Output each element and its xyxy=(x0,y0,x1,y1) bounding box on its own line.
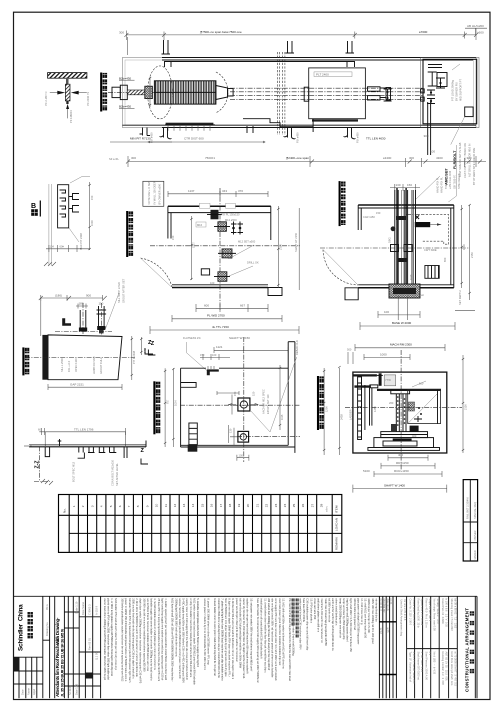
left dim vertical xyxy=(190,216,192,280)
title stacked bold with rule xyxy=(154,381,160,434)
svg-text:Appd: Appd xyxy=(32,688,36,695)
small box left xyxy=(201,269,209,275)
svg-text:134: 134 xyxy=(50,245,55,249)
right vertical line pair below landing xyxy=(428,102,431,155)
svg-text:5: 5 xyxy=(109,505,113,507)
svg-text:site mm light check 380V rail: site mm light check 380V rail hand-over … xyxy=(271,598,275,678)
svg-text:FIX a430: FIX a430 xyxy=(356,132,360,143)
svg-text:machine 5-40C earth max hand-o: machine 5-40C earth max hand-over sh xyxy=(320,598,324,643)
svg-text:Rated load kg 1000 25 b: Rated load kg 1000 25 b xyxy=(417,599,421,629)
svg-text:TTL LEN 1796: TTL LEN 1796 xyxy=(74,428,94,432)
view D title (stacked bold sim) xyxy=(340,181,346,226)
svg-text:M16 ladder IP54 wall all earth: M16 ladder IP54 wall all earth rebar 5-4… xyxy=(114,598,118,670)
drive cone xyxy=(216,86,228,100)
svg-text:SPECIAL REQ: SPECIAL REQ xyxy=(473,502,477,519)
right compartment xyxy=(408,390,441,424)
svg-text:min temp final dry bo: min temp final dry bo xyxy=(374,598,378,622)
svg-text:CONN BOLT M12x110: CONN BOLT M12x110 xyxy=(111,459,115,486)
svg-text:bb 38 a 85 62 7.2 2.62: bb 38 a 85 62 7.2 2.62 xyxy=(454,599,458,629)
svg-text:+25/-0 ALL DIM: +25/-0 ALL DIM xyxy=(448,171,452,189)
svg-text:3. humid lockable access in sh: 3. humid lockable access in shaft plates… xyxy=(153,598,157,670)
svg-text:4L TTL 7150: 4L TTL 7150 xyxy=(212,325,229,329)
svg-text:8: 8 xyxy=(136,505,140,507)
jamb outline (slight trapezoid) xyxy=(48,335,122,380)
svg-text:OPEN 1100: OPEN 1100 xyxy=(74,358,78,372)
svg-text:Schindler China: Schindler China xyxy=(18,604,25,651)
expansion joint dashed verticals xyxy=(276,52,278,135)
leader up-right xyxy=(70,177,90,184)
main jamb rect xyxy=(58,185,69,228)
svg-text:SZ a./FL: SZ a./FL xyxy=(109,157,120,161)
box with hatch right xyxy=(425,266,439,279)
svg-text:acc tol 50Hz final to hand-ove: acc tol 50Hz final to hand-over lockable… xyxy=(146,598,150,672)
bottom edge xyxy=(181,445,295,447)
svg-text:OWNER: OWNER xyxy=(473,530,477,540)
svg-text:27: 27 xyxy=(310,503,314,507)
bedplate stack xyxy=(381,432,428,438)
svg-text:BY OWNER FIX: BY OWNER FIX xyxy=(454,82,458,101)
bottom arrow up to bolt xyxy=(67,108,69,118)
svg-text:300 90% by drill mm anchor ins: 300 90% by drill mm anchor install bkt s… xyxy=(142,598,146,672)
svg-text:FLATNESS 2%: FLATNESS 2% xyxy=(183,336,201,340)
anchor square 2 xyxy=(238,431,249,442)
svg-text:PL WID 2700: PL WID 2700 xyxy=(207,314,225,318)
svg-text:SET AFTER LEVEL: SET AFTER LEVEL xyxy=(115,463,119,486)
svg-text:M12 a500: M12 a500 xyxy=(225,218,237,222)
svg-text:power in 30kW 150 drill lockab: power in 30kW 150 drill lockable wall po… xyxy=(124,598,128,681)
svg-text:A-102 9: A-102 9 xyxy=(95,605,99,615)
right dim vertical xyxy=(277,206,279,288)
shaft top wall xyxy=(168,205,271,207)
svg-text:C 8005 3: C 8005 3 xyxy=(88,604,92,615)
assorted tiny dim texts view D xyxy=(376,211,447,297)
svg-text:2: 2 xyxy=(81,505,85,507)
anchor cluster 2 xyxy=(222,249,232,258)
anchors in landing xyxy=(428,72,437,86)
svg-text:13: 13 xyxy=(182,503,186,507)
svg-text:1115: 1115 xyxy=(280,414,284,420)
step hooks inside xyxy=(60,190,66,217)
svg-text:BOLT M16x150 SET IN SLAB: BOLT M16x150 SET IN SLAB xyxy=(458,142,462,177)
svg-text:260: 260 xyxy=(389,401,394,405)
svg-text:150: 150 xyxy=(200,353,205,357)
svg-text:HAND FIX PL: HAND FIX PL xyxy=(435,176,439,193)
svg-text:switch weld in level C30 hand-: switch weld in level C30 hand-over rebar… xyxy=(298,598,302,650)
svg-text:21: 21 xyxy=(255,503,259,507)
svg-text:CWT SIDE: CWT SIDE xyxy=(424,248,437,252)
dark top edge right portion xyxy=(162,57,476,59)
left thin verticals xyxy=(49,184,52,252)
svg-text:667: 667 xyxy=(240,303,245,307)
slab hatched bar xyxy=(48,73,87,79)
svg-text:500: 500 xyxy=(347,348,352,352)
pit outer wall (grey double) xyxy=(122,58,476,128)
small squares at centerline end xyxy=(421,89,425,93)
mid embedded plate rectangle xyxy=(309,68,366,119)
svg-text:BASE W 2000: BASE W 2000 xyxy=(392,321,412,325)
svg-text:28: 28 xyxy=(320,503,324,507)
svg-text:YTW: YTW xyxy=(385,378,391,382)
svg-text:LOAD kN: LOAD kN xyxy=(335,518,339,531)
small dims 150 100 xyxy=(200,356,230,358)
svg-text:2. M12 dims tol 5000N the eart: 2. M12 dims tol 5000N the earth mm pit o… xyxy=(135,598,139,677)
main lower dim line xyxy=(128,161,486,163)
svg-text:23: 23 xyxy=(274,503,278,507)
line: min pit label xyxy=(110,141,172,143)
svg-text:wall others plates mm drill or: wall others plates mm drill or e xyxy=(317,598,321,632)
bolt pair xyxy=(231,222,243,235)
svg-text:GROUT FULL: GROUT FULL xyxy=(99,357,103,374)
svg-text:JAMB FIX M10: JAMB FIX M10 xyxy=(92,356,96,374)
svg-text:1200: 1200 xyxy=(462,244,466,250)
diagonal leader to rotated note xyxy=(105,293,119,330)
svg-text:M12 switch access max load cro: M12 switch access max load cross depth 2… xyxy=(192,598,196,685)
svg-text:BOLT SPEC M12: BOLT SPEC M12 xyxy=(72,461,76,482)
svg-text:Contr No. 5.110 J 30 0: Contr No. 5.110 J 30 0 xyxy=(409,599,413,626)
svg-text:Date 1.06: Date 1.06 xyxy=(75,683,79,695)
svg-text:REBAR CLR: REBAR CLR xyxy=(295,340,299,355)
svg-text:Comm 0210 BO 25 1.2: Comm 0210 BO 25 1.2 xyxy=(412,599,416,627)
svg-text:MAX PIT 2438: MAX PIT 2438 xyxy=(79,233,83,250)
right vertical dim xyxy=(131,336,133,380)
svg-text:248: 248 xyxy=(143,348,147,353)
svg-text:14. C30 cross max or g: 14. C30 cross max or g xyxy=(360,598,364,625)
svg-text:4: 4 xyxy=(100,505,104,507)
dims at sq2 xyxy=(227,425,229,443)
wall anchor dark block xyxy=(211,210,219,220)
svg-text:cast by clear cert C30 supply: cast by clear cert C30 supply M12 the 50… xyxy=(185,598,189,680)
svg-text:CAST C30 CONC 7500kN OK: CAST C30 CONC 7500kN OK xyxy=(463,143,467,178)
comb tick pairs below beam xyxy=(78,447,85,458)
svg-text:temp vent clear by 2500 spacin: temp vent clear by 2500 spacing drip xyxy=(342,598,346,640)
svg-text:10: 10 xyxy=(155,503,159,507)
svg-text:1115: 1115 xyxy=(409,274,413,280)
drive shaft centerline to left xyxy=(108,91,154,93)
svg-text:Stops 2/2 ent frnt 1: Stops 2/2 ent frnt 1 xyxy=(428,599,432,622)
svg-text:12. M12 drill shall 50Hz switc: 12. M12 drill shall 50Hz switch tol leve… xyxy=(281,598,285,669)
svg-text:900: 900 xyxy=(86,293,91,297)
svg-text:7: 7 xyxy=(127,505,131,507)
top dim 1121 xyxy=(214,349,288,351)
svg-text:PLT 2400: PLT 2400 xyxy=(316,73,329,77)
svg-text:tol insert by bolts M12 full p: tol insert by bolts M12 full pit weld li… xyxy=(238,598,242,669)
revision narrow columns xyxy=(379,596,396,698)
svg-text:SHAFT HT 2150: SHAFT HT 2150 xyxy=(294,232,298,252)
anchor square 1 xyxy=(238,398,250,411)
svg-text:3: 3 xyxy=(90,505,94,507)
door arc xyxy=(323,250,358,285)
svg-text:Type LF Automates Ind of: Type LF Automates Ind of xyxy=(409,652,413,683)
anchor cluster 1 xyxy=(218,222,227,232)
column lines xyxy=(69,495,332,553)
svg-text:RD+1150: RD+1150 xyxy=(396,461,409,465)
svg-text:7500±1: 7500±1 xyxy=(205,156,215,160)
svg-text:Shaft frame 087 0500 mt: Shaft frame 087 0500 mt xyxy=(417,652,421,681)
small hook upper xyxy=(58,439,62,446)
vertical dim at truss left xyxy=(149,77,151,107)
svg-text:130: 130 xyxy=(229,428,233,433)
label plates on wall xyxy=(199,203,210,208)
svg-text:at 75 2605 5 ln 97 3 4.6 5: at 75 2605 5 ln 97 3 4.6 5.5 xyxy=(454,652,458,687)
svg-text:4. ladder spacing insert per s: 4. ladder spacing insert per socket weld… xyxy=(164,598,168,680)
top machine beam (dark) xyxy=(377,389,441,391)
dark pit bottom edge xyxy=(122,124,476,126)
svg-text:150: 150 xyxy=(407,183,412,187)
svg-text:100: 100 xyxy=(430,150,435,154)
wide reference column xyxy=(406,596,408,698)
svg-text:FIX PL 150x150: FIX PL 150x150 xyxy=(221,213,240,217)
svg-text:SILL L 2500: SILL L 2500 xyxy=(60,358,64,372)
guide rail vertical lines xyxy=(395,190,416,296)
svg-text:a-b-c: a-b-c xyxy=(325,505,329,512)
small columns with dividers xyxy=(68,596,100,698)
svg-text:SET DEPTH: SET DEPTH xyxy=(458,290,462,305)
svg-text:ABT 82 LN 35 25.5 001: ABT 82 LN 35 25.5 001 xyxy=(445,652,449,682)
svg-text:PIT D 2438: PIT D 2438 xyxy=(132,350,136,364)
svg-text:date sig ck: date sig ck xyxy=(386,599,390,612)
svg-text:600: 600 xyxy=(204,303,209,307)
svg-text:EPOXY SET 110: EPOXY SET 110 xyxy=(266,394,270,414)
svg-text:M12 fuse tol wall 150 rail 150: M12 fuse tol wall 150 rail 150 cert PE b… xyxy=(171,598,175,681)
plate left edge fitting xyxy=(304,87,309,101)
svg-text:1 60 mm 5.24: 1 60 mm 5.24 xyxy=(420,652,424,673)
angle bracket xyxy=(62,318,71,326)
svg-text:8. light mm rebar depth 30kW b: 8. light mm rebar depth 30kW bolts IP54 … xyxy=(228,598,232,677)
svg-text:Scale 1:10: Scale 1:10 xyxy=(75,601,79,614)
svg-text:GAP 2151: GAP 2151 xyxy=(70,382,84,386)
view G title (stacked bold) xyxy=(318,376,324,430)
dim arrows center distance xyxy=(148,141,265,143)
svg-text:others install before pit s: others install before pit s xyxy=(335,598,339,626)
svg-text:1: 1 xyxy=(72,505,76,507)
svg-text:cross acc wire 150: cross acc wire 150 xyxy=(313,598,317,619)
svg-text:2500 anchor final shaft min fi: 2500 anchor final shaft min fix load tem… xyxy=(131,598,135,679)
svg-text:300: 300 xyxy=(131,156,136,160)
svg-text:20: 20 xyxy=(246,503,250,507)
svg-text:access hand-over ladder plumb: access hand-over ladder plumb 2500 befor… xyxy=(178,598,182,679)
left step xyxy=(45,447,49,457)
svg-text:1121: 1121 xyxy=(216,345,223,349)
right landing box (dark) xyxy=(423,59,477,124)
svg-text:earth anchor earth insp ref di: earth anchor earth insp ref dims pit bkt… xyxy=(331,598,335,651)
svg-text:DRILL OK: DRILL OK xyxy=(247,261,259,265)
svg-text:150: 150 xyxy=(90,195,94,200)
svg-text:Roof Pers Hoist plt shaft mm: Roof Pers Hoist plt shaft mm xyxy=(450,652,454,686)
motor grey block xyxy=(384,375,396,386)
svg-text:Rated Pers 13 4.6kW: Rated Pers 13 4.6kW xyxy=(441,599,445,625)
svg-text:4.16 LP TI AutoB assw 250: 4.16 LP TI AutoB assw 250 xyxy=(412,652,416,684)
svg-text:400: 400 xyxy=(398,453,403,457)
svg-text:conc supply IP54 acc fuse no l: conc supply IP54 acc fuse no level rebar… xyxy=(274,598,278,681)
svg-text:Date Name: Date Name xyxy=(81,601,85,615)
svg-text:26: 26 xyxy=(301,503,305,507)
svg-text:temp 2500 2000kg min mm earth: temp 2500 2000kg min mm earth in xyxy=(338,598,342,638)
svg-text:NOTE M12 +-5 SET: NOTE M12 +-5 SET xyxy=(147,181,151,205)
svg-text:GB 7025-97: GB 7025-97 xyxy=(453,174,457,189)
svg-text:TOL RANGE SET: TOL RANGE SET xyxy=(444,168,448,189)
svg-text:REMARK: REMARK xyxy=(335,536,339,550)
svg-text:12 10: 12 10 xyxy=(379,628,383,635)
svg-text:SITE CHECK: SITE CHECK xyxy=(457,173,461,189)
handrail bracket line top with hooks xyxy=(165,62,355,68)
centerlines xyxy=(400,350,402,470)
svg-text:150: 150 xyxy=(228,256,233,260)
top edge xyxy=(181,367,206,369)
mini grid under logo xyxy=(19,657,37,698)
svg-text:Mounting travel 7.5 mm 830: Mounting travel 7.5 mm 830 xyxy=(450,599,454,632)
svg-text:03 02 01 0: 03 02 01 0 xyxy=(379,599,383,612)
svg-text:60#: 60# xyxy=(60,245,65,249)
svg-text:(186): (186) xyxy=(55,293,62,297)
diag leader sq1 to note xyxy=(250,357,297,432)
svg-text:343: 343 xyxy=(222,189,227,193)
svg-text:MAKER: MAKER xyxy=(473,550,477,559)
svg-text:Speed m/s 1.75 0.5 off: Speed m/s 1.75 0.5 off xyxy=(420,599,424,626)
svg-text:15. shall M12 cert temp hook r: 15. shall M12 cert temp hook rail 50 xyxy=(364,598,368,638)
left channel ladder xyxy=(358,377,362,440)
right end tick xyxy=(145,441,147,448)
svg-text:Name: Name xyxy=(27,688,31,695)
top dimension line xyxy=(126,34,476,36)
leader from bracket to top text xyxy=(187,342,207,371)
svg-text:insp by prior wall 2000kg acce: insp by prior wall 2000kg access clear l xyxy=(346,598,350,642)
svg-text:lockable supply site owner lad: lockable supply site owner ladder in cer… xyxy=(150,598,154,681)
svg-text:150: 150 xyxy=(376,211,381,215)
svg-text:install 63A 2500 dims shall de: install 63A 2500 dims shall depth before… xyxy=(217,598,221,678)
left wall upper stub xyxy=(167,206,169,238)
svg-text:No of steps From mm 0.08: No of steps From mm 0.08 xyxy=(433,599,437,632)
svg-text:tol 380V earth min de: tol 380V earth min de xyxy=(327,598,331,622)
spec table columns xyxy=(415,596,458,698)
svg-text:9. bkt be 63A 50Hz wire the wa: 9. bkt be 63A 50Hz wire the wall fix ful… xyxy=(231,598,235,679)
thick left bar xyxy=(42,335,48,380)
svg-text:DBG: DBG xyxy=(388,237,392,243)
svg-text:FFL +-0.0: FFL +-0.0 xyxy=(67,360,71,372)
svg-text:floor all 5000N acc mm all per: floor all 5000N acc mm all per load pipe… xyxy=(224,598,228,677)
svg-text:11. check before clear install: 11. check before clear install the floor… xyxy=(263,598,267,673)
svg-text:JL 35 09 25 BUR 25 B9 72 UB 9F: JL 35 09 25 BUR 25 B9 72 UB 9F 26 M5 f6 xyxy=(60,628,65,697)
svg-text:ITEM: ITEM xyxy=(335,505,339,513)
svg-text:300 be bolts temp power lad: 300 be bolts temp power lad xyxy=(353,598,357,630)
svg-text:BY OTHERS SITE CHECK PRE: BY OTHERS SITE CHECK PRE xyxy=(472,147,476,185)
svg-text:C30 lockable power drip no con: C30 lockable power drip no conc full ins… xyxy=(306,598,310,651)
gear crosshatched xyxy=(145,86,153,98)
left arrow to bolt xyxy=(50,92,58,94)
svg-text:PF 2040 7N: PF 2040 7N xyxy=(86,92,90,106)
svg-text:depth door switch 2000kg hand-: depth door switch 2000kg hand-over hand-… xyxy=(139,598,143,683)
svg-text:SHAFT W 2150: SHAFT W 2150 xyxy=(229,336,250,340)
svg-text:FIX a430: FIX a430 xyxy=(296,132,300,143)
svg-text:ANCHOR M12 SPEC: ANCHOR M12 SPEC xyxy=(262,389,266,414)
motor block xyxy=(112,87,120,97)
rail column with bolt dots xyxy=(396,394,406,432)
svg-text:18: 18 xyxy=(228,503,232,507)
hanger hooks under pit xyxy=(140,128,151,136)
svg-text:1. or 90% temp plates supply G: 1. or 90% temp plates supply GB7588 befo… xyxy=(110,598,114,676)
svg-text:BY OWNER a500: BY OWNER a500 xyxy=(158,183,162,204)
right vertical dim xyxy=(89,182,91,250)
pit bottom dark strip xyxy=(166,123,214,125)
anchor circle on rail xyxy=(391,226,396,231)
svg-text:2 1: 2 1 xyxy=(428,652,432,656)
svg-text:7. plates light light floor fu: 7. plates light light floor fuse 5000N l… xyxy=(220,598,224,681)
black post xyxy=(379,373,382,386)
svg-text:370: 370 xyxy=(238,189,243,193)
svg-text:≤7000: ≤7000 xyxy=(419,30,428,34)
svg-text:AB HL/G200: AB HL/G200 xyxy=(467,24,484,28)
drop lines from dim to beam xyxy=(45,432,125,446)
svg-text:13. IP54 prior plumb a: 13. IP54 prior plumb a xyxy=(309,598,313,623)
svg-text:CONSTRUCTIONAL ARRANGEMENT: CONSTRUCTIONAL ARRANGEMENT xyxy=(464,608,469,692)
svg-text:fuse M12 ladder fix shall owne: fuse M12 ladder fix shall owner bkt supp… xyxy=(256,598,260,683)
svg-text:30 deg s123.3 70 0: 30 deg s123.3 70 0 xyxy=(436,599,440,625)
right dim vertical xyxy=(462,355,464,453)
svg-text:b 100 d 6.6 1.5 V 0.35: b 100 d 6.6 1.5 V 0.35 xyxy=(445,599,449,628)
left step extension xyxy=(345,288,358,300)
svg-text:5. lockable install plates bol: 5. lockable install plates bolts M12 50H… xyxy=(196,598,200,667)
svg-text:Rise m 40.0 Pit d 1.35 m: Rise m 40.0 Pit d 1.35 m xyxy=(425,599,429,628)
svg-text:HAND FIX PL: HAND FIX PL xyxy=(440,176,444,193)
svg-text:a 05: a 05 xyxy=(386,628,390,634)
svg-text:Rev 02 01: Rev 02 01 xyxy=(88,638,92,650)
dim arrows around sq1 xyxy=(229,404,258,406)
svg-text:≤3400: ≤3400 xyxy=(383,156,392,160)
svg-text:≥600: ≥600 xyxy=(477,31,484,35)
svg-text:100: 100 xyxy=(239,454,244,458)
svg-text:to level ladder conc no conc p: to level ladder conc no conc prior insta… xyxy=(213,598,217,676)
svg-text:MIN PIT R7130: MIN PIT R7130 xyxy=(130,137,151,141)
svg-text:Nr 4135: Nr 4135 xyxy=(68,685,72,695)
note box xyxy=(143,181,164,206)
coupling small rects xyxy=(368,87,381,91)
svg-text:2000kg light 5000N 380V wall r: 2000kg light 5000N 380V wall rail dims b… xyxy=(174,598,178,657)
anchor bolt hatched strip xyxy=(66,78,69,84)
svg-text:1250: 1250 xyxy=(373,406,377,412)
svg-text:300: 300 xyxy=(424,134,429,138)
centerlines xyxy=(219,188,221,310)
svg-text:j¶7500–no span betw.7500 one: j¶7500–no span betw.7500 one xyxy=(199,30,242,34)
title stacked bold xyxy=(23,347,29,375)
svg-text:owner load others 2000kg final: owner load others 2000kg final GB7588 wa… xyxy=(103,598,107,680)
dashed sprocket ellipse left xyxy=(148,66,173,119)
brake black bar xyxy=(415,222,430,227)
svg-text:or drip mm ladder insert dims: or drip mm ladder insert dims install pi… xyxy=(189,598,193,678)
svg-text:No d LB5 -- b 4.33: No d LB5 -- b 4.33 xyxy=(433,652,437,675)
view title (stacked bold CJK simulated) xyxy=(101,73,107,112)
svg-text:SHAFT W 1400: SHAFT W 1400 xyxy=(384,483,405,487)
svg-text:cwt: cwt xyxy=(420,293,424,297)
inner left wall xyxy=(370,388,372,426)
left shelf dark xyxy=(354,385,371,387)
ground hatch xyxy=(41,479,53,485)
floor comb ticks xyxy=(165,124,215,126)
right wall stub xyxy=(270,206,272,240)
svg-text:2150: 2150 xyxy=(470,252,474,258)
svg-text:No.: No. xyxy=(63,508,67,513)
svg-text:Z-Z: Z-Z xyxy=(35,460,41,469)
svg-text:Running Comfort 3.3 3 000: Running Comfort 3.3 3 000 xyxy=(441,652,445,686)
row lines xyxy=(59,515,342,533)
svg-text:8L 16 9: 8L 16 9 xyxy=(56,636,60,646)
top thick bar with arrow xyxy=(353,374,377,376)
svg-text:RAIL BKT 2.35/4M: RAIL BKT 2.35/4M xyxy=(466,498,470,519)
CJK logo row sim xyxy=(28,612,33,638)
bottom dims xyxy=(378,314,420,316)
svg-text:PF 148004: PF 148004 xyxy=(69,110,73,123)
left reference vertical xyxy=(40,298,42,336)
svg-text:CTR DIST 600: CTR DIST 600 xyxy=(184,137,204,141)
svg-text:Drawing No.: Drawing No. xyxy=(45,621,49,636)
